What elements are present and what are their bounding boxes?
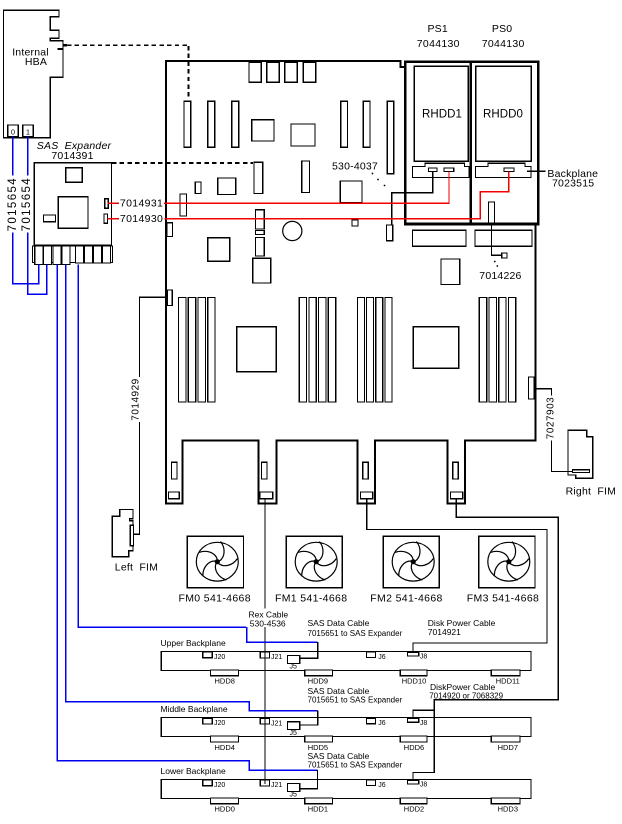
label 7014929 xyxy=(131,377,142,422)
Middle backplane bar xyxy=(161,718,531,737)
component square S2 xyxy=(253,258,271,283)
svg-text:SAS Data Cable: SAS Data Cable xyxy=(308,686,370,696)
svg-text:PS1: PS1 xyxy=(427,23,447,35)
svg-text:FM1 541-4668: FM1 541-4668 xyxy=(275,593,348,605)
expander bottom connector row frame xyxy=(32,246,112,262)
Right FIM bracket xyxy=(568,430,593,478)
blue wire expander to middle backplane xyxy=(66,264,318,710)
PS-RHDD enclosure xyxy=(405,62,538,224)
SAS Expander board xyxy=(34,163,111,246)
battery circle xyxy=(283,221,302,240)
Internal HBA card xyxy=(4,10,64,137)
Upper disk HDD9 xyxy=(305,670,333,676)
svg-text:7015654: 7015654 xyxy=(7,177,19,232)
Middle backplane connector J5 xyxy=(288,722,300,730)
Upper disk HDD8 xyxy=(210,670,238,676)
svg-text:HDD11: HDD11 xyxy=(496,677,520,686)
svg-text:RHDD1: RHDD1 xyxy=(422,108,462,120)
Middle disk HDD7 xyxy=(491,736,520,742)
top edge connector blocks x4 xyxy=(249,62,261,82)
svg-text:530-4536: 530-4536 xyxy=(250,618,286,628)
CPU square 1 xyxy=(237,327,277,372)
HBA port 0 xyxy=(8,125,19,137)
fan FM2 box xyxy=(383,536,439,587)
svg-text:J6: J6 xyxy=(378,654,386,661)
DIMM slots group3 xyxy=(357,298,364,403)
svg-text:J5: J5 xyxy=(290,792,298,799)
fan FM0 rotor xyxy=(196,542,238,582)
svg-text:7023515: 7023515 xyxy=(552,177,594,189)
disk power cable wire 7014920 xyxy=(413,499,558,781)
svg-text:7014931: 7014931 xyxy=(120,198,163,210)
fan FM3 box xyxy=(479,536,535,587)
svg-text:HDD6: HDD6 xyxy=(404,743,424,752)
disk power cable wire 7014921 xyxy=(367,499,547,652)
component square A xyxy=(252,120,274,141)
fan FM0 box xyxy=(187,536,243,587)
red wire 7014931 xyxy=(108,172,449,204)
label 7027903 xyxy=(546,396,557,441)
svg-text:J21: J21 xyxy=(271,782,282,789)
svg-text:Lower Backplane: Lower Backplane xyxy=(161,766,226,776)
fan FM1 box xyxy=(286,536,342,587)
svg-text:FM0 541-4668: FM0 541-4668 xyxy=(178,593,251,605)
board leg connectors xyxy=(171,462,177,479)
left edge slot L1 xyxy=(180,194,187,216)
svg-text:HDD4: HDD4 xyxy=(214,743,234,752)
wire 7014226 to plug xyxy=(492,223,502,255)
fan FM1 rotor xyxy=(295,542,337,582)
backplane connector c1 xyxy=(429,168,437,172)
svg-text:J20: J20 xyxy=(214,720,225,727)
black tail to lower J5 xyxy=(300,770,318,788)
Lower backplane connector J20 xyxy=(203,780,213,786)
svg-text:J6: J6 xyxy=(378,720,386,727)
svg-text:7014920 or 7068329: 7014920 or 7068329 xyxy=(429,692,503,701)
svg-text:1: 1 xyxy=(26,127,30,136)
HBA inner tick xyxy=(58,48,63,50)
svg-text:PS0: PS0 xyxy=(492,23,512,35)
RHDD1 tray xyxy=(414,66,468,161)
svg-text:HDD3: HDD3 xyxy=(498,805,518,814)
backplane connector c3 xyxy=(504,168,514,172)
DIMM slots group4 xyxy=(479,298,486,403)
slot A (SAS expander slot, dashed target) xyxy=(254,162,263,193)
black tail to upper J5 xyxy=(300,642,318,658)
DIMM slots group1 xyxy=(179,298,186,403)
svg-text:RHDD0: RHDD0 xyxy=(483,108,523,120)
svg-text:7014391: 7014391 xyxy=(51,150,93,162)
label 7015654 (port0 cable) xyxy=(7,176,19,233)
black tail to middle J5 xyxy=(300,711,318,725)
svg-text:SAS Data Cable: SAS Data Cable xyxy=(308,618,370,628)
expander small rect xyxy=(43,215,55,222)
label Rex Cable 530-4536 xyxy=(246,609,290,628)
Left FIM connector bar xyxy=(130,525,133,546)
svg-text:J5: J5 xyxy=(290,730,298,737)
label 7014930 xyxy=(119,213,164,223)
component square S1 xyxy=(208,238,230,262)
backplane connector c2 xyxy=(444,168,454,172)
component square S3 xyxy=(441,259,460,285)
svg-text:HDD1: HDD1 xyxy=(308,805,328,814)
Upper backplane connector J8 xyxy=(408,652,419,656)
svg-text:Middle Backplane: Middle Backplane xyxy=(161,704,228,714)
enclosure foot right xyxy=(475,230,532,246)
CPU square 2 xyxy=(413,327,458,369)
svg-text:Upper Backplane: Upper Backplane xyxy=(161,638,226,648)
svg-text:7015651 to SAS Expander: 7015651 to SAS Expander xyxy=(308,696,403,705)
Upper backplane connector J21 xyxy=(260,652,269,658)
svg-text:7027903: 7027903 xyxy=(545,397,556,439)
svg-text:0: 0 xyxy=(11,127,15,136)
enclosure foot left xyxy=(413,230,467,246)
motherboard outline xyxy=(166,61,536,504)
svg-text:Right FIM: Right FIM xyxy=(566,485,616,497)
black wire backplane to board connector xyxy=(392,172,433,226)
RHDD0 tray xyxy=(476,66,532,161)
svg-text:7014921: 7014921 xyxy=(428,627,461,637)
Lower backplane connector J21 xyxy=(260,780,269,786)
left edge connector E1 xyxy=(167,223,173,237)
Rex cable wire board leg2 to J21 chain xyxy=(264,499,266,784)
Lower disk HDD2 xyxy=(400,798,427,804)
mid column connector stack xyxy=(255,210,264,229)
left edge connector E2 (7014929) xyxy=(168,290,173,306)
Middle backplane connector J21 xyxy=(260,718,269,724)
Right FIM connector bar xyxy=(572,470,589,473)
svg-text:SAS Data Cable: SAS Data Cable xyxy=(308,751,370,761)
dashed link Internal HBA to slot xyxy=(67,44,189,46)
connector vconn (backplane black cable target) xyxy=(387,225,393,241)
label 7014931 xyxy=(119,198,164,208)
Lower disk HDD3 xyxy=(491,798,520,804)
backplane label pointer xyxy=(527,170,546,172)
plug square 7014226 xyxy=(502,253,507,258)
svg-text:J21: J21 xyxy=(271,654,282,661)
red wire 7014930 xyxy=(107,172,509,219)
tall slot right (riser) xyxy=(387,101,393,174)
fan FM3 rotor xyxy=(488,542,530,582)
Left FIM bracket xyxy=(112,510,133,557)
svg-text:HDD0: HDD0 xyxy=(214,805,234,814)
svg-text:J8: J8 xyxy=(420,654,428,661)
small slot near left xyxy=(195,182,201,194)
HBA connector tab xyxy=(62,44,67,47)
Upper backplane connector J6 xyxy=(367,652,376,658)
dashed link SAS Expander to slot A xyxy=(112,162,253,164)
svg-text:HDD7: HDD7 xyxy=(498,743,518,752)
PCIe slots row1 xyxy=(184,101,191,147)
component square C xyxy=(218,178,236,195)
Middle disk HDD4 xyxy=(210,736,238,742)
svg-text:HDD2: HDD2 xyxy=(404,805,424,814)
expander chip large xyxy=(58,197,88,228)
blue wire HBA port1 to expander xyxy=(28,136,47,294)
Lower disk HDD0 xyxy=(210,798,238,804)
expander chip small xyxy=(66,168,82,183)
svg-text:7014930: 7014930 xyxy=(120,213,163,225)
svg-text:7015654: 7015654 xyxy=(21,177,33,232)
svg-text:J6: J6 xyxy=(378,782,386,789)
Upper backplane connector J20 xyxy=(203,652,213,658)
svg-text:J5: J5 xyxy=(290,664,298,671)
connector 7014226 xyxy=(489,202,495,223)
enclosure divider xyxy=(469,62,472,224)
disk backplane strip right xyxy=(476,163,532,177)
svg-text:HDD9: HDD9 xyxy=(308,677,328,686)
dotted pointer 7014226 xyxy=(494,261,496,263)
svg-text:J21: J21 xyxy=(271,720,282,727)
Middle disk HDD5 xyxy=(305,736,333,742)
svg-text:530-4037: 530-4037 xyxy=(332,161,378,173)
Lower disk HDD1 xyxy=(305,798,333,804)
Middle backplane connector J6 xyxy=(367,718,376,724)
label 7015654 (port1 cable) xyxy=(21,176,33,233)
Upper backplane connector J5 xyxy=(288,656,300,664)
wire 7014929 board to Left FIM xyxy=(134,297,168,534)
svg-text:J8: J8 xyxy=(420,720,428,727)
square 530-4037 xyxy=(340,181,362,203)
svg-text:HDD8: HDD8 xyxy=(214,677,234,686)
expander connector 7014931 xyxy=(105,199,108,209)
disk backplane strip left xyxy=(413,163,470,177)
Lower backplane bar xyxy=(161,779,531,798)
svg-text:7015651 to SAS Expander: 7015651 to SAS Expander xyxy=(308,761,403,770)
fan FM2 rotor xyxy=(392,542,434,582)
Middle backplane connector J8 xyxy=(408,719,419,723)
wire 7027903 board to Right FIM xyxy=(534,389,573,472)
Middle backplane connector J20 xyxy=(203,718,213,724)
component square B xyxy=(291,124,315,146)
right edge slot R1 (7027903) xyxy=(528,377,534,399)
Lower backplane connector J5 xyxy=(288,784,300,792)
svg-text:7044130: 7044130 xyxy=(417,38,460,50)
disk power branch to middle J8 xyxy=(413,710,434,719)
svg-text:7014929: 7014929 xyxy=(131,378,142,420)
slot B xyxy=(302,161,310,193)
DIMM slots group2 xyxy=(299,298,306,403)
svg-text:J8: J8 xyxy=(420,782,428,789)
Lower backplane connector J6 xyxy=(367,780,376,786)
blue wire expander to upper backplane xyxy=(78,264,317,642)
svg-text:HDD10: HDD10 xyxy=(402,677,427,686)
blue wire HBA port0 to expander xyxy=(13,136,39,283)
HBA port 1 xyxy=(23,125,33,137)
svg-text:7044130: 7044130 xyxy=(482,38,525,50)
svg-text:7015651 to SAS Expander: 7015651 to SAS Expander xyxy=(308,629,403,638)
expander bottom connectors x8 xyxy=(35,246,43,265)
Upper backplane bar xyxy=(161,651,531,670)
svg-text:HBA: HBA xyxy=(25,56,47,68)
svg-text:FM3 541-4668: FM3 541-4668 xyxy=(467,593,540,605)
svg-text:FM2 541-4668: FM2 541-4668 xyxy=(370,593,443,605)
svg-text:Left FIM: Left FIM xyxy=(115,562,158,574)
Lower backplane connector J8 xyxy=(408,780,419,784)
blue wire expander to lower backplane xyxy=(57,264,317,770)
Upper disk HDD11 xyxy=(491,670,520,676)
tiny square xyxy=(352,220,358,226)
dotted pointer 530-4037 xyxy=(372,173,374,175)
svg-text:J20: J20 xyxy=(214,782,225,789)
svg-text:J20: J20 xyxy=(214,654,225,661)
expander connector 7014930 xyxy=(104,214,107,223)
Middle disk HDD6 xyxy=(400,736,427,742)
board leg fan sockets xyxy=(169,492,180,499)
svg-text:7014226: 7014226 xyxy=(479,270,521,282)
Upper disk HDD10 xyxy=(400,670,427,676)
